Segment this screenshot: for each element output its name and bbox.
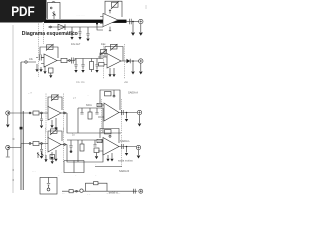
ground below jack J6 (138, 150, 140, 155)
resistor R18 chain (69, 190, 73, 193)
node U5 out (126, 112, 128, 114)
capacitor C16 rail4 (94, 140, 97, 146)
diode D1 row1 (58, 24, 65, 30)
ground cluster below U4 (52, 118, 56, 127)
resistor R17 bottom left (50, 155, 55, 160)
ground cluster below U2 (37, 64, 45, 71)
resistor R10 rail3 (88, 112, 92, 119)
dashed IC outline row2 left (39, 24, 44, 78)
node U3 out (132, 60, 134, 62)
resistor R12 row4 (33, 142, 39, 146)
jack J6 (136, 145, 140, 149)
ground S1 (45, 155, 47, 159)
ground below J3 (7, 115, 9, 124)
ground below R3 (49, 75, 52, 78)
op-amp U4 (48, 107, 61, 121)
svg-text:.., pedal st.,..: .., pedal st.,.. (106, 192, 121, 195)
capacitor C9 rail (96, 59, 99, 70)
ground below jack J2 (140, 63, 142, 71)
wire U1 output to jack J1 (127, 21, 139, 23)
ground cluster below U3 (110, 68, 114, 74)
svg-text:SAIDA R: SAIDA R (119, 169, 129, 173)
resistor R3 below U2 (49, 68, 54, 73)
svg-text:600m: 600m (86, 104, 92, 107)
resistor R21 U7 input (97, 139, 102, 142)
resistor R8 row3 (33, 111, 39, 115)
wire U2 output (57, 60, 75, 62)
capacitor C15 rail4 (70, 140, 73, 150)
node output U1 (132, 21, 134, 23)
ground below node row2 right (132, 61, 134, 71)
wire left bus vertical 2 (22, 111, 24, 190)
wire U3 output (121, 60, 139, 62)
capacitor C2 row1 (71, 27, 74, 37)
capacitor C11 rail3 (81, 108, 84, 114)
dashed IC outline U6 (46, 128, 64, 162)
ground below node row1 (132, 22, 134, 33)
wire row4 rail (67, 139, 103, 141)
tick marks page left (13, 139, 15, 180)
resistor R7 U3 input (99, 63, 105, 66)
wire thick top bus (44, 20, 127, 25)
wire row1 signal line under bus (48, 26, 103, 28)
capacitor C14 row4 (40, 144, 43, 156)
svg-text:SAIDA A: SAIDA A (128, 91, 138, 95)
capacitor C6 row2 (72, 58, 74, 64)
jack J2 (139, 59, 143, 63)
resistor R11 feedback U5 (100, 90, 120, 110)
ground C14 (40, 156, 43, 159)
ground C10 (40, 126, 43, 129)
ground C2 (70, 37, 73, 40)
capacitor C12 rail3 (96, 108, 99, 114)
switch S1 contacts (37, 152, 44, 158)
wire U7 output (119, 146, 136, 148)
node row2 output (69, 60, 71, 62)
wire row2 rail (75, 59, 103, 61)
ground cluster below U6 (52, 150, 56, 159)
ground cluster below U7 (108, 153, 112, 159)
PDF badge (0, 0, 47, 23)
ground below node row3 (126, 113, 128, 119)
capacitor C1 (130, 19, 132, 24)
node junction on left bus (20, 127, 23, 130)
wire U4 output (61, 112, 67, 114)
electrolytic blob C15 (70, 150, 73, 153)
capacitor C5 row2 input (40, 55, 45, 61)
resistor R6 feedback U3 (105, 44, 123, 61)
jack J1 (139, 19, 143, 23)
transistor Q2 chain (80, 189, 83, 192)
block tone stack row3 (67, 108, 103, 133)
wire U5 output (119, 112, 137, 114)
capacitor C3 row1 (79, 27, 82, 37)
ground R17 (51, 161, 54, 164)
dashed IC outline U5 (101, 99, 121, 133)
node row1 a (50, 26, 52, 28)
op-amp U3 (107, 54, 121, 69)
svg-text:10u 10u: 10u 10u (76, 81, 85, 84)
node row4 b (41, 143, 43, 145)
capacitor C8 rail (82, 59, 85, 70)
capacitor C17 (122, 144, 124, 149)
wire bottom chain (62, 190, 137, 192)
node U6 out (64, 144, 66, 146)
svg-text:.·.: .·. (87, 94, 89, 97)
ground C9 (95, 70, 98, 73)
node U4 out (64, 112, 66, 114)
resistor R14 rail4 (80, 144, 84, 151)
wire row3 rail (78, 107, 103, 109)
ground C8 (81, 70, 84, 73)
wire drop from bus node (97, 24, 103, 30)
ground R15 (95, 156, 98, 159)
resistor R2 feedback U2 (40, 44, 58, 58)
svg-text:... ..: ... .. (32, 170, 36, 173)
ground row1 mid (86, 39, 89, 42)
wire left page margin line (12, 25, 14, 193)
svg-text:10u 4u7: 10u 4u7 (71, 42, 81, 46)
wire U5 box bottom (103, 132, 121, 134)
svg-text:.. ... .. ..: .. ... .. .. (76, 14, 85, 17)
svg-text:+fio: +fio (124, 81, 129, 84)
wire J3 to U4 (10, 112, 48, 114)
potentiometer P1 row2 (100, 50, 107, 59)
ground below node row4 (126, 147, 128, 153)
resistor R19 chain loop (94, 182, 99, 185)
ground C7 (74, 70, 77, 73)
wire left bus vertical 1 (20, 62, 22, 190)
node row3 a (29, 112, 31, 114)
capacitor C7 rail (75, 59, 78, 70)
node U7 out (126, 146, 128, 148)
resistor R16 feedback U7 (100, 129, 119, 144)
svg-text:~ ?: ~ ? (28, 91, 32, 95)
resistor R20 U5 input (97, 103, 102, 106)
svg-text:Diagrama esquemático: Diagrama esquemático (22, 31, 79, 37)
tick top right corner (145, 5, 147, 9)
dashed IC outline U3 (104, 44, 125, 79)
ground C3 (78, 37, 81, 40)
resistor R15 rail4 (94, 148, 99, 153)
jack J5 input left (6, 145, 10, 149)
op-amp U1 (100, 9, 118, 31)
node row4 a (29, 143, 31, 145)
resistor R5 rail (90, 62, 94, 70)
connector block X1 (64, 161, 84, 173)
dashed IC outline U7 (120, 135, 122, 167)
wire J5 to U6 (10, 144, 48, 148)
wire chain feedback loop (86, 183, 108, 191)
resistor R1 feedback loop U1 (105, 1, 122, 17)
op-amp U7 (98, 138, 119, 156)
jack J4 (137, 110, 141, 114)
node chain a (76, 190, 78, 192)
jack J7 (139, 189, 143, 193)
ground below jack J4 (139, 115, 141, 123)
wire U7 box bottom (95, 166, 122, 168)
diode D2 (127, 59, 131, 63)
svg-text:.,..: .,.. (62, 191, 65, 194)
ground below jack J1 (140, 24, 142, 32)
battery box B1 (40, 178, 57, 195)
wire U6 output (61, 144, 67, 146)
node input row2 (25, 61, 27, 63)
wire row2 input (21, 58, 38, 63)
op-amp U5 (98, 103, 119, 121)
op-amp U6 (48, 138, 61, 153)
resistor R9 feedback U4 (48, 95, 62, 111)
block tone stack row4 (67, 140, 103, 162)
capacitor C10 row3 (40, 113, 43, 125)
wire U3 inputs (98, 55, 107, 65)
dashed IC outline U4 (46, 94, 64, 134)
node row3 b (41, 112, 43, 114)
resistor R4 row2 (61, 58, 67, 62)
capacitor C18 chain (134, 189, 136, 194)
op-amp U2 (41, 54, 57, 67)
ground below J5 (6, 150, 10, 157)
transistor Q1 block above bus (48, 1, 61, 19)
capacitor C13 (122, 110, 124, 115)
capacitor C4 row1 (87, 27, 90, 38)
svg-text:saida motiva: saida motiva (118, 159, 133, 163)
svg-text:PDF: PDF (11, 3, 35, 19)
jack J3 input left (6, 111, 10, 115)
resistor R13 feedback U6 (48, 129, 62, 142)
svg-text:.. ..: .. .. (87, 193, 91, 196)
